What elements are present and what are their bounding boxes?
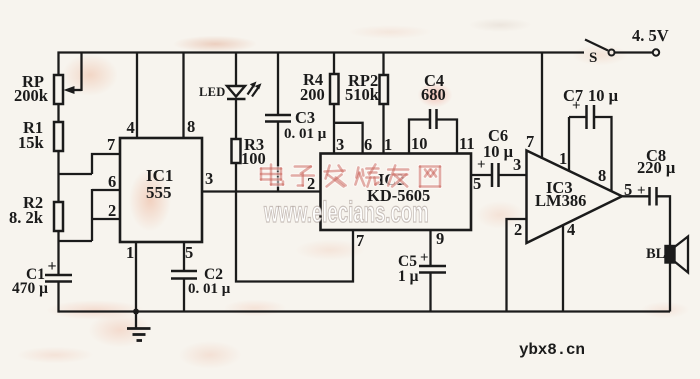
capacitor C5: [419, 265, 446, 268]
label IC2: [378, 172, 405, 189]
label KD-5605: [367, 188, 430, 205]
wire R2 to C1: [57, 231, 59, 275]
label 10: [411, 136, 428, 153]
wire IC3 out to C8: [622, 195, 650, 197]
switch S lever: [585, 40, 608, 51]
label 5: [624, 182, 632, 199]
wire node R1/R2 to pin7: [59, 173, 93, 175]
battery terminal: [653, 49, 659, 55]
label IC1: [146, 167, 173, 184]
IC IC2 KD-5605 box: [321, 154, 472, 231]
potentiometer RP2: [380, 75, 389, 104]
wire IC1 pin6: [92, 189, 120, 191]
label C6: [488, 128, 508, 145]
wire speaker to bottom rail: [669, 263, 671, 312]
resistor R3: [232, 139, 241, 163]
label 0. 01 u: [188, 282, 230, 297]
label 1: [559, 151, 567, 168]
wire switch to battery: [615, 51, 653, 53]
label ybx8.cn: [519, 342, 585, 358]
ground: [135, 312, 137, 329]
label 11: [459, 136, 475, 153]
wire IC1 pin1 to ground rail: [135, 242, 137, 312]
capacitor C1: [45, 274, 72, 277]
label C3: [295, 110, 315, 127]
capacitor C3: [265, 114, 291, 117]
potentiometer RP: [54, 75, 63, 104]
wire IC1 pin8: [182, 53, 184, 139]
switch S contact: [609, 50, 615, 56]
label 3: [336, 137, 344, 154]
label 3: [513, 157, 521, 174]
wire IC2 pin10 to C4: [409, 120, 430, 154]
label 0. 01 u: [284, 127, 326, 142]
wire rail to RP2: [382, 53, 384, 76]
wire C7 to IC3 pin8: [594, 117, 612, 191]
wire rail to LED: [235, 53, 237, 87]
wire rail to R4: [333, 53, 335, 75]
label C2: [204, 267, 223, 283]
speaker BL: [666, 246, 675, 263]
label 100: [241, 151, 266, 168]
capacitor C6: [491, 163, 494, 187]
wire C6 to IC3 pin3: [499, 174, 527, 176]
resistor R4: [330, 74, 339, 104]
capacitor C2: [171, 270, 197, 273]
wire R4 to IC2 pin3: [333, 104, 335, 154]
wire IC2 pin5 to C6: [471, 174, 492, 176]
label S: [589, 51, 597, 66]
label 2: [514, 222, 522, 239]
label R1: [23, 120, 43, 137]
resistor R2: [54, 202, 63, 231]
wire RP wiper to rail: [80, 53, 82, 92]
label +: [477, 158, 486, 173]
label 9: [436, 231, 444, 248]
wire bottom rail: [59, 310, 671, 312]
resistor R1: [54, 122, 63, 151]
label 15k: [18, 135, 44, 152]
op-amp IC3 LM386: [527, 151, 623, 244]
label 8: [187, 119, 195, 136]
label RP2: [348, 73, 378, 90]
label 6: [364, 137, 372, 154]
label LED: [199, 86, 226, 99]
label 7: [526, 134, 534, 151]
wire C8 to speaker: [657, 196, 671, 246]
capacitor C7: [585, 105, 588, 129]
wire IC1 pin7: [92, 154, 120, 174]
label 5: [473, 176, 481, 193]
label 4: [567, 222, 575, 239]
label 7: [356, 233, 364, 250]
label 3: [205, 171, 213, 188]
label +: [637, 184, 646, 199]
label 680: [421, 87, 446, 104]
label 8. 2k: [9, 210, 43, 227]
RP wiper arrow: [72, 89, 82, 91]
wire IC1 pin4: [136, 53, 138, 139]
wire C2 to bottom rail: [183, 279, 185, 312]
wire pin3 node down to IC2 pin7: [236, 192, 353, 282]
label 200k: [14, 88, 48, 105]
label R4: [303, 72, 323, 89]
wire LED to R3: [235, 99, 237, 139]
wire node R2/C1 to pins 2,6: [59, 240, 93, 242]
label 4. 5V: [632, 28, 669, 45]
wire IC1 pin2: [92, 218, 120, 220]
node ground junction: [133, 309, 139, 315]
label C4: [424, 73, 444, 90]
watermark row 2: [264, 196, 429, 230]
wire RP to R1: [57, 104, 59, 122]
label 6: [108, 174, 116, 191]
label C1: [26, 267, 45, 283]
label +: [420, 251, 429, 266]
wire branch to IC2 pin6: [334, 123, 363, 154]
wire C3 to pin3 wire: [277, 122, 279, 192]
wire IC1 pin3 to IC2 pin2: [202, 190, 321, 192]
capacitor C4: [429, 109, 432, 129]
wire rail to IC3 pin7: [541, 53, 543, 160]
wire C4 to IC2 pin11: [437, 120, 458, 154]
wire R3 to pin3 node: [235, 163, 237, 192]
label 510k: [345, 87, 379, 104]
label 470 u: [12, 281, 48, 297]
label 8: [598, 168, 606, 185]
label +: [48, 259, 57, 275]
label RP: [22, 74, 44, 91]
label 10 u: [588, 88, 618, 105]
label IC3: [546, 180, 573, 197]
wire C5 to bottom rail: [429, 273, 431, 312]
label 220 u: [637, 160, 675, 177]
LED D1: [227, 86, 245, 97]
label 7: [107, 137, 115, 154]
label 555: [146, 184, 172, 201]
IC IC1 555 box: [120, 138, 202, 242]
label 1 u: [398, 269, 418, 285]
wire left rail upper: [57, 52, 59, 77]
wire IC3 pin2 to ground rail: [507, 219, 527, 312]
label C8: [646, 148, 666, 165]
capacitor C8: [648, 187, 651, 206]
label 1: [384, 137, 392, 154]
label BL: [646, 247, 665, 262]
label R2: [23, 195, 43, 212]
label LM386: [535, 193, 586, 210]
wire C1 to bottom rail: [57, 282, 59, 313]
label 4: [127, 120, 135, 137]
label R3: [244, 137, 264, 154]
wire pins 6-2 tie: [91, 189, 93, 241]
label 2: [307, 176, 315, 193]
wire IC3 pin4 to ground rail: [562, 226, 564, 312]
label +: [572, 99, 581, 114]
wire top rail: [58, 51, 585, 53]
wire R1 to R2: [57, 151, 59, 202]
wire IC1 pin5 to C2: [183, 242, 185, 271]
label 1: [126, 245, 134, 262]
label 5: [185, 245, 193, 262]
label 2: [108, 203, 116, 220]
wire IC3 pin1 to C7: [568, 117, 570, 172]
wire rail to C3: [277, 53, 279, 116]
label 10 u: [483, 144, 513, 161]
wire IC2 pin9 to C5: [429, 230, 431, 266]
label C7: [563, 88, 583, 105]
label C5: [398, 254, 417, 270]
label 200: [300, 87, 325, 104]
wire RP2 to IC2 pin1: [382, 104, 384, 154]
